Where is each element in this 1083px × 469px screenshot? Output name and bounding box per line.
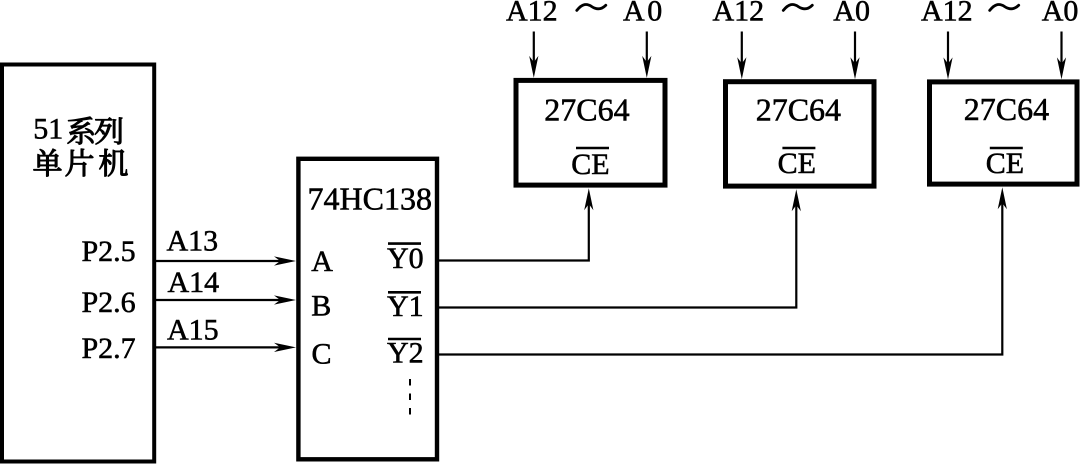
svg-text:B: B [311,290,331,323]
svg-text:CE: CE [778,147,816,180]
svg-text:CE: CE [986,147,1024,180]
svg-text:27C64: 27C64 [964,91,1049,127]
svg-text:P2.5: P2.5 [82,235,136,268]
svg-text:A0: A0 [833,0,870,28]
svg-text:A: A [311,245,333,278]
svg-text:A14: A14 [168,266,220,299]
svg-text:A12: A12 [921,0,973,28]
svg-text:74HC138: 74HC138 [308,181,432,217]
svg-text:CE: CE [571,148,609,181]
svg-text:P2.6: P2.6 [82,286,136,319]
svg-text:A13: A13 [167,225,219,258]
svg-text:A0: A0 [1042,0,1079,28]
svg-text:P2.7: P2.7 [82,332,136,365]
svg-text:27C64: 27C64 [544,91,629,127]
svg-text:27C64: 27C64 [756,91,841,127]
svg-text:A12: A12 [506,0,558,28]
svg-text:51: 51 [33,113,63,146]
svg-text:A0: A0 [623,0,665,28]
svg-text:A12: A12 [713,0,765,28]
svg-text:Y2: Y2 [387,337,424,370]
svg-text:C: C [312,338,332,371]
svg-text:Y0: Y0 [387,242,424,275]
svg-text:Y1: Y1 [387,290,424,323]
svg-text:A15: A15 [167,314,219,347]
